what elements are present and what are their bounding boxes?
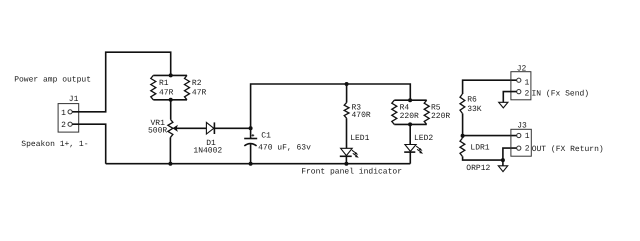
connector J3: [511, 129, 531, 156]
LDR1 label: [470, 143, 489, 152]
svg-text:1N4002: 1N4002: [193, 146, 222, 155]
node VR1/rail junction: [168, 162, 172, 166]
wire R1/R2 bottom to VR1 top: [170, 100, 172, 120]
node C1/rail junction: [249, 162, 253, 166]
J1 reference label: [69, 95, 79, 104]
C1 labels: [258, 132, 311, 153]
svg-text:LED1: LED1: [350, 134, 369, 143]
wire R4/R5 top bar: [394, 99, 426, 101]
wire R1/R2 bottom bar: [153, 99, 187, 101]
wire C1 node up and across to R4/R5: [251, 84, 411, 128]
wire junction to J3 pin1: [463, 135, 517, 137]
wire rail to R3: [346, 84, 348, 103]
capacitor C1: [244, 128, 257, 163]
R3 labels: [352, 104, 371, 121]
resistor R5: [424, 100, 429, 124]
svg-text:33K: 33K: [467, 105, 482, 114]
diode D1: [206, 122, 214, 134]
J2 reference label: [517, 65, 527, 74]
label: OUT (FX Return): [532, 145, 604, 154]
svg-text:47R: 47R: [159, 88, 174, 97]
resistor R6: [460, 94, 465, 113]
resistor R4: [392, 100, 397, 124]
J2 pin 2 number: [525, 90, 530, 99]
potentiometer VR1: [168, 119, 207, 137]
wire LDR1 bottom to ground node: [463, 156, 503, 160]
wire bottom return rail: [106, 163, 411, 165]
svg-text:220R: 220R: [400, 112, 419, 121]
wire J1 pin2 down to bottom rail: [72, 124, 105, 164]
label: Speakon 1+, 1-: [21, 140, 88, 149]
svg-text:1: 1: [525, 132, 530, 141]
J1 pin 1 number: [61, 109, 66, 118]
svg-text:LDR1: LDR1: [470, 143, 489, 152]
svg-text:500R: 500R: [148, 127, 167, 136]
wire R3 to LED1: [346, 118, 348, 148]
node LDR1/ground junction: [501, 158, 505, 162]
svg-text:OUT (FX Return): OUT (FX Return): [532, 145, 604, 154]
LED2 label: [414, 134, 433, 143]
svg-text:Front panel indicator: Front panel indicator: [301, 167, 402, 176]
wire junction down to ground: [502, 160, 504, 166]
node D1/C1 junction: [249, 126, 253, 130]
J2 pin 1 number: [525, 78, 530, 87]
svg-text:47R: 47R: [192, 88, 207, 97]
J3 pin 1 number: [525, 132, 530, 141]
svg-text:220R: 220R: [431, 112, 450, 121]
wire D1 cathode to C1 node: [214, 127, 250, 129]
resistor R1: [151, 75, 156, 99]
wire VR1 bottom to rail: [169, 137, 171, 163]
J3 reference label: [517, 122, 527, 131]
photoresistor LDR1: [460, 138, 465, 156]
svg-text:R2: R2: [192, 79, 202, 88]
svg-text:1: 1: [61, 109, 66, 118]
R2 value labels: [192, 79, 207, 98]
D1 labels: [193, 139, 222, 155]
wire R6 bottom to LDR1 node: [462, 113, 464, 138]
svg-text:2: 2: [525, 90, 530, 99]
VR1 labels: [148, 119, 167, 136]
connector J1: [58, 104, 79, 133]
wire R4/R5 to LED2: [409, 124, 411, 144]
svg-text:J1: J1: [69, 95, 79, 104]
svg-text:C1: C1: [261, 132, 271, 141]
wire R6 top to J2 pin1: [463, 80, 517, 94]
svg-text:2: 2: [525, 145, 530, 154]
node R4/R5 bottom junction: [408, 122, 412, 126]
svg-text:R1: R1: [159, 79, 169, 88]
svg-text:LED2: LED2: [414, 134, 433, 143]
svg-text:Power amp output: Power amp output: [14, 76, 91, 85]
node R1/R2 bottom junction: [169, 98, 173, 102]
svg-text:IN (Fx Send): IN (Fx Send): [532, 90, 590, 99]
R6 labels: [467, 95, 482, 114]
resistor R2: [185, 75, 190, 99]
LED LED1: [340, 148, 359, 157]
R1 value labels: [159, 79, 174, 98]
svg-text:ORP12: ORP12: [466, 164, 490, 173]
node LED1/rail junction: [344, 162, 348, 166]
LED LED2: [404, 145, 423, 154]
svg-text:J3: J3: [517, 122, 527, 131]
LED1 label: [350, 134, 369, 143]
node R4/R5 top junction: [408, 98, 412, 102]
ground symbol at J2: [499, 102, 508, 108]
wire junction up to J3 pin2: [503, 148, 517, 160]
node R3 top junction: [345, 82, 349, 86]
ORP12 value label: [466, 164, 490, 173]
svg-text:Speakon 1+, 1-: Speakon 1+, 1-: [21, 140, 88, 149]
svg-text:470 uF, 63v: 470 uF, 63v: [258, 143, 311, 152]
J1 pin 2 number: [61, 121, 66, 130]
J3 pin 2 number: [525, 145, 530, 154]
ground symbol at LDR1: [498, 166, 507, 172]
label: Front panel indicator: [301, 167, 402, 176]
wire LED1 to rail: [345, 156, 347, 163]
node R1/R2 top junction: [169, 73, 173, 77]
svg-text:470R: 470R: [352, 111, 371, 120]
wire LED2 to rail: [409, 152, 411, 164]
connector J2: [511, 72, 531, 100]
node R6/LDR1 junction: [461, 134, 465, 138]
label: Power amp output: [14, 76, 91, 85]
resistor R3: [344, 103, 349, 119]
svg-text:1: 1: [525, 78, 530, 87]
svg-text:2: 2: [61, 121, 66, 130]
svg-text:R6: R6: [467, 95, 477, 104]
wire J1 pin1 up and across to R1/R2 top: [72, 52, 170, 112]
wire R1/R2 top bar: [153, 74, 187, 76]
wire R4/R5 bottom bar: [394, 123, 426, 125]
svg-text:J2: J2: [517, 65, 527, 74]
wire J2 pin2 to ground: [503, 92, 516, 103]
R4 labels: [400, 104, 419, 121]
label: IN (Fx Send): [532, 90, 590, 99]
R5 labels: [431, 104, 450, 121]
